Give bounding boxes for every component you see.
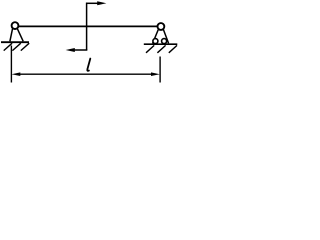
wire beam AB xyxy=(15,25,161,27)
support left pin: triangle leg left xyxy=(10,28,13,41)
support right roller: leg left xyxy=(153,30,159,44)
support left: ground hatching xyxy=(4,43,30,50)
label l (span length) xyxy=(87,59,90,71)
support right: ground hatching xyxy=(146,45,177,52)
moment couple: bottom force arrow (points left) xyxy=(74,49,87,51)
moment couple: vertical link xyxy=(86,3,88,51)
moment couple: top force arrow (points right) xyxy=(86,2,99,4)
dimension: left extension line xyxy=(10,46,12,83)
support right: ground line xyxy=(144,43,178,45)
dimension: right extension line xyxy=(159,57,161,83)
support right roller: leg right xyxy=(163,30,168,44)
dimension: right arrowhead xyxy=(151,72,160,76)
dimension: left arrowhead xyxy=(12,72,21,76)
support right roller: roller circle right xyxy=(162,39,167,44)
dimension: measure line xyxy=(18,73,153,75)
support right roller: hinge circle xyxy=(158,23,165,30)
support left pin: triangle leg right xyxy=(17,29,23,42)
support left pin: hinge circle xyxy=(12,22,19,29)
support right roller: roller circle left xyxy=(153,39,158,44)
support left: ground line xyxy=(1,41,29,43)
